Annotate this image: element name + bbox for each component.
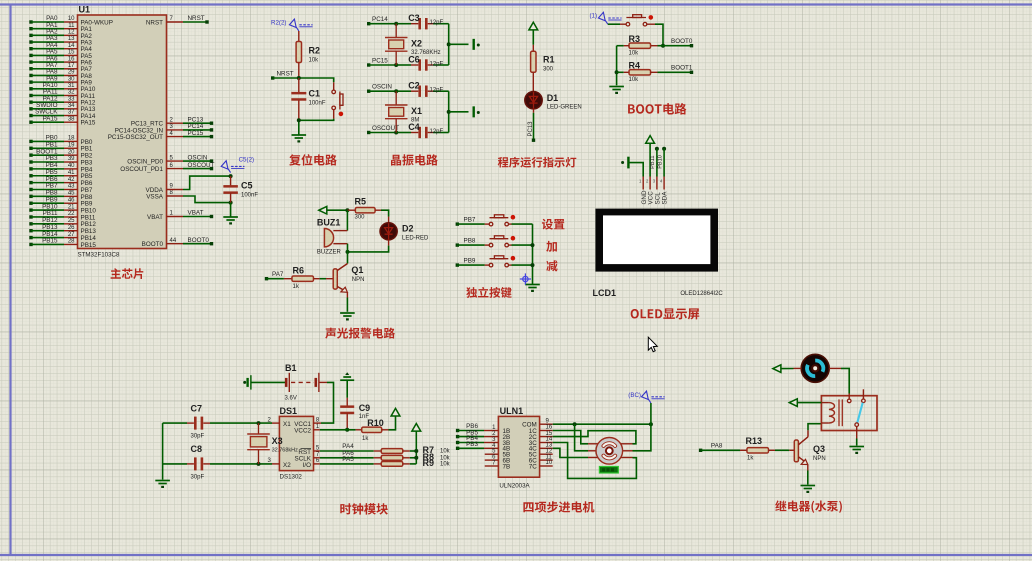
svg-text:22: 22 bbox=[68, 211, 75, 217]
svg-text:X2: X2 bbox=[411, 38, 422, 48]
svg-text:SCL: SCL bbox=[655, 192, 662, 205]
svg-text:10: 10 bbox=[68, 16, 75, 22]
svg-text:18: 18 bbox=[68, 136, 75, 142]
svg-text:BOOT0: BOOT0 bbox=[671, 38, 693, 45]
svg-text:DS1: DS1 bbox=[280, 406, 298, 416]
svg-text:16: 16 bbox=[546, 425, 553, 431]
svg-text:VCC2: VCC2 bbox=[294, 428, 311, 435]
svg-text:31: 31 bbox=[68, 83, 75, 89]
svg-text:VSSA: VSSA bbox=[146, 194, 164, 201]
svg-text:BOOT1: BOOT1 bbox=[671, 65, 693, 72]
svg-text:R9: R9 bbox=[423, 458, 435, 468]
svg-text:X3: X3 bbox=[272, 436, 283, 446]
svg-text:R10: R10 bbox=[367, 418, 384, 428]
svg-text:ULN2003A: ULN2003A bbox=[499, 483, 530, 490]
svg-text:C8: C8 bbox=[191, 444, 203, 454]
svg-text:40: 40 bbox=[68, 163, 75, 169]
svg-text:D1: D1 bbox=[547, 93, 559, 103]
svg-text:PB7: PB7 bbox=[464, 217, 476, 224]
svg-text:NPN: NPN bbox=[352, 277, 365, 283]
svg-text:PB10: PB10 bbox=[657, 155, 663, 169]
svg-text:C5: C5 bbox=[241, 181, 253, 191]
svg-text:NRST: NRST bbox=[277, 70, 294, 77]
svg-text:C2: C2 bbox=[408, 81, 420, 91]
svg-text:PB15: PB15 bbox=[81, 242, 97, 249]
svg-text:C7: C7 bbox=[191, 404, 203, 414]
svg-text:I/O: I/O bbox=[303, 462, 311, 469]
svg-text:10k: 10k bbox=[629, 77, 640, 83]
svg-text:U1: U1 bbox=[79, 5, 91, 15]
svg-text:PA8: PA8 bbox=[711, 443, 723, 450]
svg-text:BOOT0: BOOT0 bbox=[188, 237, 210, 244]
svg-text:34: 34 bbox=[68, 103, 75, 109]
svg-text:7B: 7B bbox=[503, 463, 511, 470]
svg-text:PB11: PB11 bbox=[650, 156, 656, 169]
svg-text:PA15: PA15 bbox=[81, 120, 96, 127]
svg-text:C9: C9 bbox=[359, 403, 371, 413]
svg-text:12pF: 12pF bbox=[430, 88, 444, 94]
svg-text:21: 21 bbox=[68, 204, 75, 210]
svg-text:NRST: NRST bbox=[146, 19, 163, 26]
svg-text:OSCIN: OSCIN bbox=[372, 84, 392, 91]
svg-text:33: 33 bbox=[68, 96, 75, 102]
svg-text:29: 29 bbox=[68, 70, 75, 76]
svg-text:3.6V: 3.6V bbox=[285, 395, 297, 401]
svg-text:(1): (1) bbox=[589, 13, 597, 20]
svg-text:8M: 8M bbox=[411, 117, 419, 123]
svg-text:ULN1: ULN1 bbox=[500, 406, 524, 416]
svg-text:PC15: PC15 bbox=[372, 58, 388, 65]
svg-text:OSCOUT_PD1: OSCOUT_PD1 bbox=[120, 166, 163, 173]
svg-text:R1: R1 bbox=[543, 55, 555, 65]
svg-text:38: 38 bbox=[68, 116, 75, 122]
svg-text:100nF: 100nF bbox=[309, 101, 326, 107]
svg-text:R2: R2 bbox=[309, 46, 321, 56]
svg-text:20: 20 bbox=[68, 149, 75, 155]
svg-text:42: 42 bbox=[68, 177, 75, 183]
svg-text:X2: X2 bbox=[283, 462, 291, 469]
svg-text:OSCOUT: OSCOUT bbox=[188, 162, 215, 169]
svg-text:PA15: PA15 bbox=[43, 115, 58, 122]
svg-text:PA7: PA7 bbox=[272, 271, 284, 278]
svg-text:Q1: Q1 bbox=[351, 265, 363, 275]
svg-text:OSCIN: OSCIN bbox=[188, 154, 208, 161]
svg-text:NPN: NPN bbox=[813, 456, 826, 462]
svg-text:R6: R6 bbox=[293, 266, 305, 276]
svg-text:37: 37 bbox=[68, 110, 75, 116]
svg-text:15: 15 bbox=[68, 50, 75, 56]
svg-text:X1: X1 bbox=[411, 106, 422, 116]
svg-text:45: 45 bbox=[68, 191, 75, 197]
svg-text:R3: R3 bbox=[629, 34, 641, 44]
svg-text:16: 16 bbox=[68, 56, 75, 62]
svg-text:13: 13 bbox=[68, 36, 75, 42]
svg-text:17: 17 bbox=[68, 63, 75, 69]
svg-text:OLED12864I2C: OLED12864I2C bbox=[680, 291, 723, 297]
svg-text:C1: C1 bbox=[309, 89, 321, 99]
svg-text:R2(2): R2(2) bbox=[271, 20, 286, 27]
svg-text:32.768KHz: 32.768KHz bbox=[411, 50, 441, 56]
svg-text:12: 12 bbox=[68, 30, 75, 36]
svg-text:LCD1: LCD1 bbox=[593, 288, 617, 298]
svg-text:10k: 10k bbox=[440, 462, 451, 468]
svg-text:32: 32 bbox=[68, 90, 75, 96]
svg-text:10: 10 bbox=[546, 460, 553, 466]
svg-text:44: 44 bbox=[170, 238, 177, 244]
svg-text:11: 11 bbox=[68, 23, 75, 29]
svg-text:32.768kHz: 32.768kHz bbox=[272, 448, 299, 454]
svg-text:25: 25 bbox=[68, 218, 75, 224]
svg-text:BUZZER: BUZZER bbox=[317, 249, 342, 255]
svg-text:C4: C4 bbox=[408, 122, 420, 132]
svg-text:PA5: PA5 bbox=[342, 456, 354, 463]
svg-text:PC14: PC14 bbox=[372, 16, 388, 23]
svg-text:PC15: PC15 bbox=[188, 130, 204, 137]
svg-text:D2: D2 bbox=[402, 223, 414, 233]
svg-text:NRST: NRST bbox=[188, 15, 205, 22]
svg-text:30: 30 bbox=[68, 76, 75, 82]
svg-text:12pF: 12pF bbox=[430, 20, 444, 26]
svg-text:C6: C6 bbox=[408, 55, 420, 65]
svg-text:10k: 10k bbox=[309, 58, 320, 64]
svg-text:DS1302: DS1302 bbox=[280, 474, 303, 481]
svg-text:1k: 1k bbox=[747, 456, 754, 462]
svg-text:BOOT0: BOOT0 bbox=[142, 241, 164, 248]
svg-text:30pF: 30pF bbox=[191, 474, 205, 480]
svg-text:PB15: PB15 bbox=[42, 238, 58, 245]
svg-text:BUZ1: BUZ1 bbox=[317, 217, 341, 227]
svg-text:7C: 7C bbox=[529, 463, 538, 470]
svg-text:43: 43 bbox=[68, 184, 75, 190]
svg-text:OSCOUT: OSCOUT bbox=[372, 125, 399, 132]
svg-text:41: 41 bbox=[68, 170, 75, 176]
svg-text:300: 300 bbox=[355, 215, 366, 221]
svg-text:R13: R13 bbox=[746, 436, 763, 446]
svg-text:PC15-OSC32_OUT: PC15-OSC32_OUT bbox=[108, 134, 163, 141]
svg-text:VBAT: VBAT bbox=[147, 214, 163, 221]
svg-text:10k: 10k bbox=[629, 51, 640, 57]
svg-text:1k: 1k bbox=[362, 436, 369, 442]
svg-text:PB9: PB9 bbox=[464, 258, 476, 265]
svg-text:(BC): (BC) bbox=[628, 392, 641, 399]
svg-text:R5: R5 bbox=[355, 197, 367, 207]
svg-text:28: 28 bbox=[68, 239, 75, 245]
svg-text:10k: 10k bbox=[440, 449, 451, 455]
svg-text:PB3: PB3 bbox=[466, 441, 478, 448]
svg-text:Q3: Q3 bbox=[813, 444, 825, 454]
svg-text:1k: 1k bbox=[293, 284, 300, 290]
svg-text:STM32F103C8: STM32F103C8 bbox=[78, 252, 121, 259]
svg-text:12pF: 12pF bbox=[430, 129, 444, 135]
svg-text:X1: X1 bbox=[283, 421, 291, 428]
svg-text:30pF: 30pF bbox=[191, 434, 205, 440]
svg-text:R4: R4 bbox=[629, 60, 641, 70]
svg-text:300: 300 bbox=[543, 66, 554, 72]
svg-text:B1: B1 bbox=[285, 363, 297, 373]
svg-text:27: 27 bbox=[68, 232, 75, 238]
svg-text:39: 39 bbox=[68, 156, 75, 162]
svg-text:46: 46 bbox=[68, 197, 75, 203]
svg-text:10k: 10k bbox=[440, 456, 451, 462]
svg-text:PB8: PB8 bbox=[464, 238, 476, 245]
svg-text:OSCIN_PD0: OSCIN_PD0 bbox=[127, 159, 163, 166]
svg-text:VBAT: VBAT bbox=[188, 210, 204, 217]
svg-text:C3: C3 bbox=[408, 13, 420, 23]
svg-text:SDA: SDA bbox=[662, 191, 669, 205]
svg-text:12pF: 12pF bbox=[430, 62, 444, 68]
svg-text:LED-RED: LED-RED bbox=[402, 235, 429, 241]
svg-text:14: 14 bbox=[68, 43, 75, 49]
svg-text:19: 19 bbox=[68, 142, 75, 148]
svg-text:26: 26 bbox=[68, 225, 75, 231]
svg-text:LED-GREEN: LED-GREEN bbox=[547, 104, 582, 110]
svg-text:PC13: PC13 bbox=[528, 121, 534, 137]
svg-text:C5(2): C5(2) bbox=[239, 157, 254, 164]
svg-text:100nF: 100nF bbox=[241, 193, 258, 199]
